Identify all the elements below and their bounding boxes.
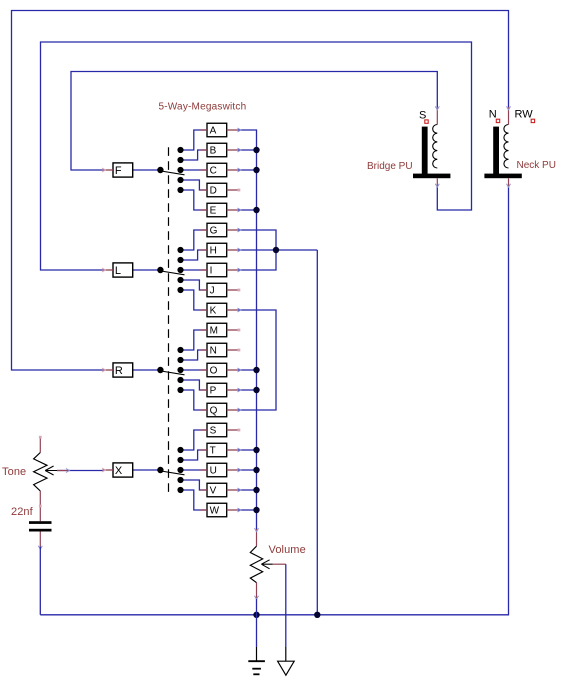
output port triangle <box>278 647 295 675</box>
switch group F: contact wires to terminals ABCDE <box>181 130 208 150</box>
switch contact dots group F <box>177 147 183 153</box>
switch group R: contact wires to terminals MNOPQ <box>181 330 208 350</box>
switch group X: contact wires to terminals STUVW <box>181 430 208 450</box>
switch group common wire F to wiper junction <box>133 169 161 171</box>
svg-text:Volume: Volume <box>269 544 306 556</box>
switch group common wire R to wiper junction <box>133 369 161 371</box>
inductor: Bridge PU coil <box>413 106 450 187</box>
wire: ground bus to earth ground <box>256 615 258 647</box>
wire: bus A-B-C-E-O-P-T-U-V-W down to Volume pot <box>238 130 257 529</box>
wire: K to Q <box>238 310 276 410</box>
switch group common wire L to wiper junction <box>133 269 161 271</box>
switch contact dots group L <box>177 247 183 253</box>
switch wiper arm R <box>161 371 185 375</box>
ground <box>248 647 265 674</box>
svg-text:N: N <box>489 109 497 121</box>
svg-text:P: P <box>210 386 217 397</box>
terminal marker square at S <box>425 120 428 123</box>
switch terminal Q <box>200 403 241 417</box>
switch body dashed line <box>168 147 170 495</box>
switch terminal J <box>200 283 240 297</box>
switch common terminal R <box>102 363 133 377</box>
potentiometer: Tone <box>34 436 70 521</box>
svg-text:A: A <box>210 126 217 137</box>
svg-text:J: J <box>210 286 215 297</box>
junction dot at R common <box>157 367 163 373</box>
svg-text:F: F <box>115 165 122 177</box>
switch wiper arm X <box>161 471 185 475</box>
svg-text:Bridge PU: Bridge PU <box>367 161 413 172</box>
svg-text:22nf: 22nf <box>11 506 34 518</box>
svg-text:G: G <box>210 226 218 237</box>
switch terminal E <box>200 203 241 217</box>
switch terminal W <box>200 503 241 517</box>
switch contact dots group X <box>177 447 183 453</box>
switch terminal D <box>200 183 240 197</box>
svg-text:Q: Q <box>210 406 218 417</box>
svg-text:R: R <box>115 365 123 377</box>
svg-text:D: D <box>210 186 217 197</box>
wire: R terminal to Neck PU N terminal (outer loop) <box>12 11 509 371</box>
junction dot at L common <box>157 267 163 273</box>
svg-text:L: L <box>115 265 121 277</box>
switch common terminal F <box>102 163 133 177</box>
capacitor 22nf <box>29 521 52 546</box>
switch terminal T <box>200 443 241 457</box>
switch contact dots group R <box>177 347 183 353</box>
terminal marker square at RW <box>531 119 534 122</box>
switch terminal P <box>200 383 241 397</box>
switch terminal U <box>200 463 241 477</box>
switch terminal B <box>200 143 241 157</box>
wire: G-H-I bus <box>238 230 276 270</box>
junction dot at F common <box>157 167 163 173</box>
wire: volume wiper to output <box>285 564 287 647</box>
switch group L: contact wires to terminals GHIJK <box>181 230 208 250</box>
svg-text:O: O <box>210 366 218 377</box>
svg-text:T: T <box>210 446 216 457</box>
wire: H row to ground bus (long vertical) <box>316 250 318 615</box>
svg-text:X: X <box>115 465 123 477</box>
switch terminal K <box>200 303 241 317</box>
svg-text:E: E <box>210 206 217 217</box>
switch terminal H <box>200 243 241 257</box>
switch terminal S <box>200 423 240 437</box>
svg-text:RW: RW <box>515 109 534 121</box>
switch terminal C <box>200 163 241 177</box>
junction dot at X common <box>157 467 163 473</box>
svg-text:U: U <box>210 466 217 477</box>
svg-text:W: W <box>210 506 220 517</box>
switch wiper arm L <box>161 271 185 275</box>
wire: Tone wiper to X terminal <box>57 470 103 472</box>
switch terminal O <box>200 363 241 377</box>
switch wiper arm F <box>161 171 185 175</box>
svg-text:5-Way-Megaswitch: 5-Way-Megaswitch <box>159 102 247 113</box>
svg-text:M: M <box>210 326 218 337</box>
switch terminal A <box>200 123 241 137</box>
wire: volume bottom to ground bus <box>256 599 258 615</box>
switch terminal I <box>200 263 241 277</box>
switch common terminal L <box>102 263 133 277</box>
svg-text:Tone: Tone <box>2 466 26 478</box>
junction dots on main bus <box>253 147 320 618</box>
switch terminal N <box>200 343 240 357</box>
svg-text:V: V <box>210 486 217 497</box>
wire: ground bus along bottom to Neck PU bottom <box>40 186 508 615</box>
svg-text:N: N <box>210 346 217 357</box>
wire: L terminal to Bridge PU bottom (second loop) <box>41 42 472 270</box>
svg-text:H: H <box>210 246 217 257</box>
switch common terminal X <box>102 463 133 477</box>
potentiometer: Volume <box>250 528 285 599</box>
svg-text:K: K <box>210 306 217 317</box>
switch terminal G <box>200 223 241 237</box>
inductor: Neck PU coil <box>484 106 521 187</box>
switch terminal M <box>200 323 240 337</box>
wire: F terminal to Bridge PU S terminal (third loop) <box>71 72 437 171</box>
svg-text:C: C <box>210 166 217 177</box>
svg-text:Neck PU: Neck PU <box>517 160 556 171</box>
svg-text:B: B <box>210 146 217 157</box>
svg-text:I: I <box>210 266 213 277</box>
switch group common wire X to wiper junction <box>133 469 161 471</box>
switch terminal V <box>200 483 241 497</box>
svg-text:S: S <box>210 426 217 437</box>
terminal marker square at N <box>496 119 499 122</box>
wire: cap bottom to ground bus <box>38 546 42 549</box>
